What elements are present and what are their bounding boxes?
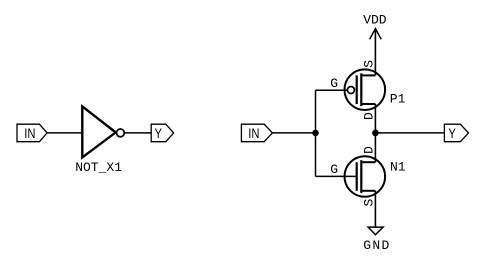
svg-text:S: S: [362, 199, 377, 207]
transistor P1 (PMOS): [345, 69, 386, 110]
wire IN to inverter: [47, 132, 82, 134]
junction gate node: [312, 130, 319, 137]
wire bubble to Y: [124, 132, 151, 134]
svg-text:IN: IN: [248, 126, 259, 141]
svg-text:G: G: [330, 162, 338, 177]
svg-text:N1: N1: [390, 160, 406, 175]
output bubble: [117, 129, 125, 137]
svg-text:GND: GND: [363, 238, 389, 253]
junction output node: [372, 130, 379, 137]
svg-text:D: D: [362, 112, 377, 120]
power symbol VDD arrow: [370, 29, 382, 40]
svg-text:IN: IN: [24, 126, 35, 141]
port Y (right schematic): [444, 124, 468, 142]
svg-text:Y: Y: [154, 126, 162, 141]
wire to PMOS gate: [316, 89, 348, 91]
port IN (right schematic): [241, 124, 272, 142]
svg-text:S: S: [362, 60, 377, 68]
ground symbol GND: [368, 227, 383, 235]
wire PMOS drain to node: [374, 104, 376, 133]
svg-text:VDD: VDD: [363, 13, 387, 28]
port Y (left schematic): [151, 124, 174, 142]
wire gate bus vertical: [315, 90, 317, 176]
svg-text:D: D: [362, 146, 377, 154]
svg-text:P1: P1: [390, 91, 406, 106]
wire IN to gate bus: [272, 132, 315, 134]
wire NMOS drain to node: [374, 133, 376, 162]
inverter NOT_X1: [82, 106, 115, 157]
wire PMOS source to VDD: [374, 29, 376, 76]
svg-text:NOT_X1: NOT_X1: [75, 160, 122, 175]
transistor N1 (NMOS): [345, 156, 386, 197]
port IN (left schematic): [17, 124, 47, 142]
wire to NMOS gate: [316, 175, 356, 177]
wire NMOS source to GND: [374, 191, 376, 227]
svg-text:Y: Y: [448, 126, 456, 141]
svg-text:G: G: [330, 76, 338, 91]
wire node to Y: [375, 132, 444, 134]
